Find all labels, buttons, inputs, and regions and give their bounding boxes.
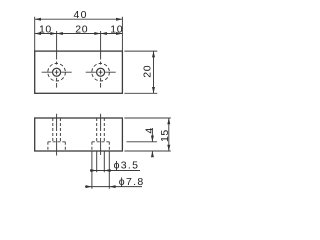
dimension 20 (top view height): dimension line [153,51,155,93]
hole 2 counterbore hidden circle (phi 7.8) [92,63,110,81]
svg-text:20: 20 [141,65,153,78]
front view hole 2 counterbore hidden lines (phi 7.8) [92,142,109,151]
front view hole 1 hidden lines (phi 3.5 bore) [53,118,61,142]
hole 1 drilled circle (phi 3.5) [53,68,61,76]
front view hole 1 counterbore bottom step hidden line [48,141,65,143]
front view hole 2 counterbore bottom step hidden line [92,141,109,143]
svg-text:20: 20 [75,23,88,35]
front view hole 2 hidden lines (phi 3.5 bore) [97,118,105,142]
dimension 15: extension lines [124,118,170,151]
top view outline [35,51,123,93]
front view hole 2 vertical centerline [100,114,102,155]
svg-text:4: 4 [144,128,156,134]
dimension phi7.8: extension lines [92,152,109,189]
dimension 15: dimension line [168,118,170,151]
hole 1 counterbore hidden circle (phi 7.8) [48,63,66,81]
hole 1 horizontal centerline [42,71,72,73]
arrowheads dimension phi3.5 (outside) [90,169,96,172]
dimension phi3.5: dimension line [90,170,140,172]
dimension 4: extension line from counterbore step [127,141,158,143]
arrowheads dimension phi7.8 (outside) [86,185,92,188]
dimension phi3.5: extension lines [97,152,105,173]
arrowheads dimension 4 (outside) [151,136,154,142]
dimension 10/20/10: dimension line [35,33,123,35]
arrowheads dimension 20 (top view height) [152,51,155,57]
dimension phi7.8: dimension line [85,186,142,188]
hole 2 horizontal centerline [86,71,116,73]
dimension 40: extension lines [35,17,123,51]
front view hole 1 counterbore hidden lines (phi 7.8) [48,142,65,151]
svg-text:40: 40 [74,9,88,21]
svg-text:ϕ7.8: ϕ7.8 [119,176,145,188]
dimension 40: dimension line [35,18,123,20]
arrowheads dimension 15 [167,118,170,124]
hole 1 vertical centerline / extension to dimension line [56,31,58,88]
front view outline [35,118,123,151]
svg-text:15: 15 [159,129,171,142]
svg-text:10: 10 [110,23,123,35]
svg-text:ϕ3.5: ϕ3.5 [114,160,140,172]
svg-text:10: 10 [39,23,52,35]
dimension 20 (top view height): extension lines [124,51,157,93]
arrowheads dimension 10/20/10 [35,32,41,35]
hole 2 drilled circle (phi 3.5) [97,68,105,76]
hole 2 vertical centerline / extension to dimension line [100,31,102,88]
front view hole 1 vertical centerline [56,114,58,156]
arrowheads dimension 40 [35,18,41,21]
dimension 4: dimension line segments with outside arrows [151,128,153,157]
